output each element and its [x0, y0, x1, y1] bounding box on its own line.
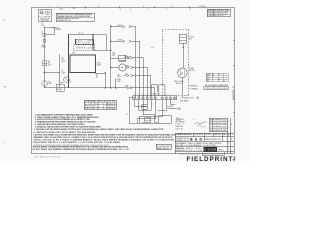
svg-text:INCHES .XX .03: INCHES .XX .03 — [176, 140, 189, 142]
svg-text:FIELDPRINT: FIELDPRINT — [187, 156, 233, 163]
cable loop jumper — [152, 85, 165, 96]
svg-text:EQUIPMENT RATING: 5.5 KW HEATE: EQUIPMENT RATING: 5.5 KW HEATER, 1.5 HP … — [34, 141, 121, 144]
border frame right — [233, 7, 235, 153]
svg-text:PL: PL — [49, 81, 51, 83]
svg-text:8. REPLACE FUSES ONLY WITH SAM: 8. REPLACE FUSES ONLY WITH SAME TYPE AND… — [34, 131, 96, 134]
svg-text:18/3 S CORD: 18/3 S CORD — [174, 81, 185, 83]
pump motor label — [189, 68, 196, 72]
terminal 9 — [169, 97, 171, 99]
svg-text:SIZE C: SIZE C — [186, 150, 196, 152]
terminal 3 — [142, 97, 144, 99]
svg-text:C-20284: C-20284 — [232, 86, 235, 100]
pilot light PL1 — [42, 81, 48, 87]
svg-text:H2: H2 — [96, 76, 98, 78]
engineer scribble — [195, 122, 207, 124]
svg-text:PRESS: PRESS — [57, 89, 62, 91]
zone tick labels along top border — [49, 6, 207, 11]
thermostat AT label — [62, 70, 66, 75]
svg-text:6. BOND ALL METAL PARTS WITHIN: 6. BOND ALL METAL PARTS WITHIN 5 FEET OF… — [35, 125, 101, 128]
svg-text:PUMP: PUMP — [41, 47, 46, 49]
junction — [92, 44, 93, 45]
svg-text:OF 1: OF 1 — [228, 134, 233, 136]
pump enclosure dashed box — [162, 30, 189, 96]
wire switch to rail B — [60, 82, 64, 84]
float switch label — [189, 37, 194, 41]
wire branch to MOV — [44, 28, 54, 35]
junction — [105, 87, 106, 88]
svg-text:TB1: TB1 — [72, 53, 75, 55]
junction — [54, 27, 55, 28]
wire terminal 2 drop — [139, 100, 151, 111]
splice box SP1 — [142, 105, 148, 109]
drawing title text — [176, 142, 222, 147]
svg-text:DET A: DET A — [176, 128, 184, 131]
svg-text:4 NO 8382-YP FORM 128: 4 NO 8382-YP FORM 128 — [34, 157, 60, 159]
terminal 7 — [161, 97, 163, 99]
float switch FS1 — [179, 34, 186, 43]
svg-text:TYPE SJTW CORD 14/3: TYPE SJTW CORD 14/3 — [205, 88, 227, 90]
contactor coil label — [127, 56, 132, 60]
svg-text:240 VAC / 5.5 KW HEATER / 1.5: 240 VAC / 5.5 KW HEATER / 1.5 HP PUMP — [176, 144, 217, 147]
relay label — [118, 74, 122, 78]
plug loop — [155, 115, 158, 123]
svg-text:TB2: TB2 — [112, 53, 115, 55]
wire float switch drop — [182, 43, 184, 68]
svg-text:LIMIT: LIMIT — [62, 72, 66, 74]
wire relay to rail C — [111, 67, 119, 69]
motor relay M2 — [119, 64, 126, 71]
svg-text:WIRE: WIRE — [207, 74, 211, 76]
notes box divider — [56, 17, 94, 19]
junction — [44, 72, 45, 73]
wire bottom run — [137, 122, 171, 124]
pump motor M1 — [178, 68, 188, 78]
svg-text:DWG NO.: DWG NO. — [186, 148, 195, 150]
svg-text:J: J — [233, 157, 236, 163]
UL logo circle — [40, 11, 43, 14]
terminal numbers — [134, 94, 171, 96]
to pump motor labels — [180, 97, 194, 102]
svg-text:H1: H1 — [96, 75, 98, 77]
connector P2 — [111, 40, 140, 97]
wire heater right drop — [92, 34, 94, 50]
svg-text:CH. BY DL: CH. BY DL — [205, 134, 212, 136]
speed note box — [204, 87, 228, 90]
title block outline — [175, 118, 234, 154]
title row4 cells — [176, 147, 203, 152]
junction — [110, 67, 111, 68]
arrow to heater — [178, 108, 181, 110]
svg-text:▸—: ▸— — [194, 117, 197, 120]
svg-text:FLOW: FLOW — [189, 37, 194, 39]
wire ground drop left — [129, 98, 156, 123]
terminal 10 — [173, 97, 175, 99]
to pump feed label — [167, 106, 174, 110]
svg-text:MOTOR: MOTOR — [189, 70, 196, 72]
svg-text:A REV PER ECN 1042: A REV PER ECN 1042 — [210, 119, 227, 122]
revision table top right — [207, 9, 230, 16]
svg-text:HI SPEED ▸: HI SPEED ▸ — [189, 84, 198, 87]
svg-text:BLK: BLK — [207, 76, 210, 78]
wire pump drop — [181, 78, 183, 97]
wire TB1 bottom drop right — [104, 73, 106, 88]
svg-text:BLU: BLU — [207, 81, 210, 83]
connector P3 — [124, 57, 143, 97]
terminal 1 — [134, 97, 136, 99]
wire rail C vertical — [110, 25, 112, 88]
wire aux riser — [115, 78, 117, 88]
svg-text:L1: L1 — [42, 23, 44, 25]
bus wire L2 bottom — [44, 87, 127, 89]
svg-text:TB1-4: TB1-4 — [97, 63, 101, 65]
wire terminal 4 drop — [146, 100, 148, 106]
svg-text:L2: L2 — [41, 31, 43, 33]
pilot light PL1 label — [49, 81, 53, 85]
svg-text:B: B — [231, 139, 232, 141]
connector P4 — [125, 66, 147, 97]
wire table — [84, 100, 116, 110]
flag label — [57, 89, 62, 91]
connector P1 — [111, 25, 136, 97]
wire flag frame — [56, 84, 64, 91]
svg-text:C REV PER ECN 1201: C REV PER ECN 1201 — [210, 126, 227, 128]
svg-text:DR. BY RWM: DR. BY RWM — [194, 134, 204, 136]
terminal 6 — [154, 97, 156, 99]
svg-text:L1—L2: L1—L2 — [78, 33, 84, 35]
varistor MOV1 — [43, 33, 46, 36]
svg-text:L1: L1 — [212, 76, 214, 78]
wire terminal 9 stub — [170, 100, 174, 104]
svg-text:HEATER 240V: HEATER 240V — [76, 46, 93, 49]
drawing number label box — [202, 152, 224, 155]
wire terminal 1 drop — [135, 100, 147, 106]
wire TB1 bottom extension — [95, 72, 105, 74]
svg-text:L1: L1 — [218, 78, 220, 80]
wire rail B vertical — [59, 54, 61, 88]
zone tick marks crossing top border — [85, 6, 189, 8]
svg-text:TO HTR: TO HTR — [167, 106, 174, 108]
svg-text:B&D: B&D — [190, 138, 202, 142]
wire coil to rail C — [111, 57, 119, 59]
svg-text:L2 RED: L2 RED — [117, 40, 123, 42]
right border column micro marks — [228, 121, 233, 152]
approvals logo box — [38, 10, 51, 22]
svg-text:C-20284: C-20284 — [204, 148, 217, 151]
svg-text:7. GROUND LUG PROVIDED INSIDE: 7. GROUND LUG PROVIDED INSIDE CONTROL BO… — [34, 128, 164, 131]
to drain labels — [176, 118, 186, 130]
svg-text:WIRE: WIRE — [98, 101, 106, 103]
control box TB1 — [70, 55, 96, 73]
svg-text:D REV PER ECN 1266: D REV PER ECN 1266 — [210, 130, 227, 132]
gfci box — [145, 118, 151, 123]
svg-text:L1 BLK: L1 BLK — [117, 25, 123, 27]
right border tick marks — [233, 40, 235, 112]
wire terminal 8 branch — [158, 100, 166, 111]
svg-text:C-20284: C-20284 — [198, 6, 207, 8]
svg-text:DO NOT SCALE THIS DRAWING. DIM: DO NOT SCALE THIS DRAWING. DIMENSIONS IN… — [33, 148, 129, 151]
wire rail A vertical — [43, 26, 45, 88]
terminal 8 — [165, 97, 167, 99]
fuse FU 2A — [43, 61, 47, 66]
svg-text:REV D: REV D — [218, 149, 224, 151]
connector P6 — [127, 87, 155, 97]
pressure switch PS1 — [64, 77, 70, 83]
svg-text:YEL: YEL — [125, 74, 128, 76]
cord spec label — [176, 118, 181, 122]
CSA logo blob — [46, 11, 50, 14]
terminal 5 — [150, 97, 152, 99]
cord plug outline — [158, 116, 171, 124]
fuse FU 2A label — [48, 61, 53, 67]
svg-text:B REV PER ECN 1168: B REV PER ECN 1168 — [210, 123, 227, 125]
svg-text:FILE 9-82: FILE 9-82 — [41, 20, 48, 22]
speed table labels — [189, 84, 199, 90]
svg-text:M: M — [181, 71, 183, 75]
stamp box left — [156, 144, 171, 149]
heater dashed enclosure — [74, 45, 95, 51]
wire heater left drop — [68, 34, 70, 88]
aux riser label — [117, 79, 121, 83]
svg-text:DIMENSIONS IN: DIMENSIONS IN — [176, 138, 190, 140]
wire terminal 7 branch — [139, 100, 162, 124]
border frame top — [32, 6, 235, 8]
svg-text:LR 49838: LR 49838 — [40, 17, 51, 19]
wire MOV to rail — [46, 34, 54, 36]
svg-text:GROUND: GROUND — [85, 108, 96, 110]
svg-text:C ADDED NOTE 7: C ADDED NOTE 7 — [208, 14, 226, 17]
wire branch rail A to rail B — [44, 72, 60, 74]
connector P5 — [124, 74, 151, 97]
circulator label — [41, 45, 46, 49]
notes box top — [56, 13, 94, 22]
MOV label — [55, 27, 62, 31]
wire header to TB2 drop — [105, 34, 107, 50]
border frame bottom — [32, 153, 235, 155]
terminal 4 — [146, 97, 148, 99]
revision history table — [210, 118, 228, 132]
junction — [68, 44, 69, 45]
svg-text:L2: L2 — [126, 114, 128, 116]
svg-text:GREEN: GREEN — [107, 108, 116, 110]
svg-text:L2: L2 — [223, 81, 225, 83]
wire terminal 3 drop — [143, 100, 155, 115]
svg-text:PANEL E83421: PANEL E83421 — [157, 147, 169, 150]
border frame left — [31, 7, 33, 153]
svg-text:LO SPEED ▸: LO SPEED ▸ — [189, 87, 199, 90]
svg-text:. . . . . . . . . .: . . . . . . . . . . — [64, 157, 91, 159]
svg-text:240 V: 240 V — [176, 123, 185, 125]
wire top header — [69, 33, 107, 35]
svg-text:SH 1: SH 1 — [223, 134, 227, 136]
svg-text:DWG-C20284-A: DWG-C20284-A — [203, 152, 224, 155]
fuse F1 — [43, 39, 46, 42]
terminal strip TB3 — [133, 96, 177, 100]
svg-text:CONTACTOR: 2P: CONTACTOR: 2P — [57, 19, 72, 22]
svg-text:1BD1 — 1BD1: 1BD1 — 1BD1 — [77, 41, 93, 43]
drawing number reverse block — [204, 147, 218, 151]
wire terminal 6 drop — [137, 100, 155, 123]
svg-text:HTR 5500W: HTR 5500W — [77, 43, 90, 45]
svg-text:PUMP: PUMP — [189, 68, 194, 70]
svg-text:M: M — [121, 67, 123, 70]
terminal 2 — [138, 97, 140, 99]
wire TB2 link — [93, 49, 111, 51]
speed table grid — [206, 73, 228, 82]
wire terminal 5 drop — [150, 100, 152, 111]
heater element box HTR — [76, 39, 94, 44]
svg-text:›: › — [3, 141, 4, 145]
contactor coil M — [119, 55, 126, 61]
fuse FU 1A label — [62, 57, 67, 63]
svg-text:TO PUMP MOTOR: TO PUMP MOTOR — [180, 97, 194, 99]
